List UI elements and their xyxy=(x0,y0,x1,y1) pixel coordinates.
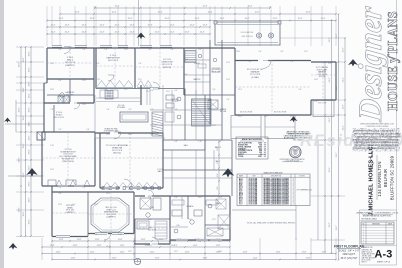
svg-text:JOB NO: 4268: JOB NO: 4268 xyxy=(362,255,372,257)
svg-text:12'-4": 12'-4" xyxy=(226,79,230,81)
svg-text:TUB: TUB xyxy=(150,207,154,209)
svg-text:12'-4": 12'-4" xyxy=(115,6,120,8)
svg-text:J MICHAEL HOMES LLC - CUSTOM R: J MICHAEL HOMES LLC - CUSTOM RESIDENCE -… xyxy=(356,211,398,214)
svg-text:11'-8": 11'-8" xyxy=(71,257,76,259)
svg-text:3'-0": 3'-0" xyxy=(148,49,152,51)
svg-text:15'-8": 15'-8" xyxy=(218,251,222,253)
svg-text:9'-6": 9'-6" xyxy=(104,89,108,91)
svg-text:12'-4": 12'-4" xyxy=(170,32,175,34)
svg-text:15'-8": 15'-8" xyxy=(106,134,110,136)
svg-text:SHEET 3 OF 10: SHEET 3 OF 10 xyxy=(377,261,390,263)
svg-text:WWW.DESIGNERHOUSEPLANS.COM: WWW.DESIGNERHOUSEPLANS.COM xyxy=(360,122,394,125)
svg-text:2'-6": 2'-6" xyxy=(58,187,62,189)
svg-text:11'-8": 11'-8" xyxy=(90,251,95,253)
svg-text:LIN: LIN xyxy=(177,225,180,227)
svg-text:11'-8": 11'-8" xyxy=(185,251,190,253)
svg-text:11'-8": 11'-8" xyxy=(141,239,146,241)
svg-text:5'-4": 5'-4" xyxy=(150,109,154,111)
svg-text:5'-4": 5'-4" xyxy=(58,49,62,51)
svg-text:UP 16R: UP 16R xyxy=(220,111,227,113)
svg-text:(WOOD): (WOOD) xyxy=(163,67,171,69)
svg-text:10'-6": 10'-6" xyxy=(29,67,31,72)
svg-text:12'-4": 12'-4" xyxy=(255,12,260,14)
svg-text:12'-4": 12'-4" xyxy=(82,104,86,106)
svg-text:SF: SF xyxy=(264,156,266,158)
svg-text:3'0 X 5'6 SH: 3'0 X 5'6 SH xyxy=(249,203,259,205)
svg-text:15'-8": 15'-8" xyxy=(148,245,152,247)
svg-text:9'-6": 9'-6" xyxy=(106,109,110,111)
svg-text:9'0 X 7'0 OH: 9'0 X 7'0 OH xyxy=(318,103,326,105)
svg-text:11'-8": 11'-8" xyxy=(112,257,117,259)
svg-text:11'-8": 11'-8" xyxy=(193,245,198,247)
svg-text:10'-6": 10'-6" xyxy=(29,107,31,112)
svg-text:5'-4": 5'-4" xyxy=(82,187,86,189)
svg-text:SH VINYL LOW-E INSUL GLS WHT: SH VINYL LOW-E INSUL GLS WHT xyxy=(264,203,289,205)
svg-text:7'-10": 7'-10" xyxy=(50,145,54,147)
svg-text:13'-2": 13'-2" xyxy=(343,77,345,82)
svg-text:11'-8": 11'-8" xyxy=(306,257,311,259)
svg-text:10'-6": 10'-6" xyxy=(29,165,31,170)
svg-text:HALL: HALL xyxy=(158,170,163,173)
svg-text:AREA CALCULATIONS: AREA CALCULATIONS xyxy=(242,138,263,141)
svg-text:10'-6": 10'-6" xyxy=(23,143,25,148)
svg-text:12'-4": 12'-4" xyxy=(106,246,110,248)
svg-text:12'-4": 12'-4" xyxy=(218,197,222,199)
svg-text:3'-0": 3'-0" xyxy=(198,49,202,51)
svg-text:10'-6": 10'-6" xyxy=(29,181,31,186)
svg-text:3'-0": 3'-0" xyxy=(174,90,178,92)
svg-text:8'-6": 8'-6" xyxy=(217,173,219,177)
svg-text:12'-4": 12'-4" xyxy=(170,25,175,27)
svg-text:2'-6": 2'-6" xyxy=(174,245,178,247)
svg-text:2'-6": 2'-6" xyxy=(290,61,294,63)
svg-text:11'-8": 11'-8" xyxy=(97,245,102,247)
svg-text:13'-2": 13'-2" xyxy=(343,104,345,109)
svg-text:REV: B: REV: B xyxy=(362,262,367,264)
svg-text:10'-6": 10'-6" xyxy=(29,197,31,202)
svg-text:42 IN RAISED BAR: 42 IN RAISED BAR xyxy=(104,130,120,133)
svg-text:12'-4": 12'-4" xyxy=(245,18,250,20)
svg-text:15'-8": 15'-8" xyxy=(124,49,128,51)
svg-text:11'-8": 11'-8" xyxy=(95,239,100,241)
svg-text:(2-CAR): (2-CAR) xyxy=(251,76,259,79)
svg-text:NOTES: NOTES xyxy=(299,175,304,177)
svg-text:12'-4": 12'-4" xyxy=(106,193,110,195)
svg-text:CAR PORCH: CAR PORCH xyxy=(241,35,253,38)
svg-text:10'-6": 10'-6" xyxy=(29,51,31,56)
svg-text:Designer: Designer xyxy=(353,4,389,124)
svg-text:11'-8": 11'-8" xyxy=(302,251,307,253)
svg-text:5'-4": 5'-4" xyxy=(82,49,86,51)
svg-text:10'-6": 10'-6" xyxy=(29,93,31,98)
svg-text:3'-0": 3'-0" xyxy=(174,109,178,111)
svg-text:3'-0": 3'-0" xyxy=(58,80,62,82)
svg-text:5'-4": 5'-4" xyxy=(174,141,178,143)
svg-text:PANTRY: PANTRY xyxy=(193,78,201,81)
svg-text:10'-6": 10'-6" xyxy=(23,57,25,62)
svg-text:8'-6": 8'-6" xyxy=(217,160,219,164)
svg-text:12'-4": 12'-4" xyxy=(218,241,222,243)
svg-text:5'-4": 5'-4" xyxy=(248,61,252,63)
svg-text:11'-2": 11'-2" xyxy=(212,219,216,221)
svg-text:9'-6": 9'-6" xyxy=(198,241,202,243)
svg-text:12'-4": 12'-4" xyxy=(238,89,242,91)
svg-text:11'-2": 11'-2" xyxy=(148,219,152,221)
svg-text:9'-6": 9'-6" xyxy=(58,193,62,195)
svg-text:3'-0": 3'-0" xyxy=(226,99,230,101)
svg-text:PLANS WITHOUT PLANS TO CONSTRU: PLANS WITHOUT PLANS TO CONSTRUCTION THIS… xyxy=(355,135,401,138)
svg-text:12'-4": 12'-4" xyxy=(51,32,56,34)
svg-text:WINDOW SCHEDULE: WINDOW SCHEDULE xyxy=(263,172,283,174)
svg-text:15'-8": 15'-8" xyxy=(50,89,54,91)
svg-text:8'0 X 14'2: 8'0 X 14'2 xyxy=(212,71,220,73)
svg-text:10'-6": 10'-6" xyxy=(23,211,25,216)
svg-text:11'-2": 11'-2" xyxy=(138,79,142,81)
svg-text:14'6 X 12'0: 14'6 X 12'0 xyxy=(108,60,119,62)
svg-text:11'-8": 11'-8" xyxy=(216,245,221,247)
svg-text:C-1042 EXP 06/30/24: C-1042 EXP 06/30/24 xyxy=(285,161,300,163)
svg-text:13'-2": 13'-2" xyxy=(329,167,331,172)
svg-text:12'-4": 12'-4" xyxy=(128,18,133,20)
svg-text:9'-6": 9'-6" xyxy=(184,74,188,76)
svg-text:12'-4": 12'-4" xyxy=(59,18,64,20)
svg-text:REPRODUCTION AND PURCHASER DRA: REPRODUCTION AND PURCHASER DRAWING STRIC… xyxy=(353,138,398,141)
svg-text:5'-4": 5'-4" xyxy=(104,49,108,51)
svg-text:12'-4": 12'-4" xyxy=(50,169,54,171)
svg-text:12'-4": 12'-4" xyxy=(165,18,170,20)
svg-text:(CARPET): (CARPET) xyxy=(66,211,75,214)
svg-text:8'0 X 6'6: 8'0 X 6'6 xyxy=(66,94,73,96)
svg-text:11'-8": 11'-8" xyxy=(120,251,125,253)
svg-text:7'-10": 7'-10" xyxy=(118,234,122,236)
svg-text:7'-10": 7'-10" xyxy=(96,79,100,81)
svg-text:11'-2": 11'-2" xyxy=(128,251,132,253)
svg-text:12'-4": 12'-4" xyxy=(82,80,86,82)
svg-text:10'-6": 10'-6" xyxy=(29,135,31,140)
svg-text:ROOF ABOVE: ROOF ABOVE xyxy=(241,31,254,34)
svg-text:12'-4": 12'-4" xyxy=(203,6,208,8)
svg-text:11'-2": 11'-2" xyxy=(198,197,202,199)
svg-text:10'-6": 10'-6" xyxy=(29,81,31,86)
svg-text:12'-4": 12'-4" xyxy=(321,18,326,20)
svg-text:16'0 X 8'0 OH DR: 16'0 X 8'0 OH DR xyxy=(274,112,287,114)
svg-text:11'-8": 11'-8" xyxy=(59,239,64,241)
svg-text:12'-4": 12'-4" xyxy=(100,25,105,27)
svg-text:11'-8": 11'-8" xyxy=(120,245,125,247)
svg-text:5'-4": 5'-4" xyxy=(150,90,154,92)
svg-text:11'-2": 11'-2" xyxy=(166,91,170,93)
svg-text:CHECKED: TM: CHECKED: TM xyxy=(362,249,373,251)
svg-text:S.C.: S.C. xyxy=(294,153,297,155)
svg-text:SIZE: SIZE xyxy=(252,175,255,177)
svg-text:12'-4": 12'-4" xyxy=(238,116,242,118)
svg-text:5'-4": 5'-4" xyxy=(148,197,152,199)
svg-text:12'-4": 12'-4" xyxy=(100,32,105,34)
svg-text:No: No xyxy=(363,223,365,225)
svg-text:15'-8": 15'-8" xyxy=(128,189,132,191)
svg-text:FIRST FLOORPLAN: FIRST FLOORPLAN xyxy=(334,244,365,248)
svg-text:CONSTRUCTION LICENSE: CONSTRUCTION LICENSE xyxy=(366,126,389,128)
svg-text:ONLY COPYRIGHT AND HOUSE SITE: ONLY COPYRIGHT AND HOUSE SITE PART PERMI… xyxy=(355,144,399,147)
svg-text:BLUFFTON SC 29909: BLUFFTON SC 29909 xyxy=(390,155,395,200)
svg-text:12'-4": 12'-4" xyxy=(112,12,117,14)
svg-text:MARK: MARK xyxy=(239,174,243,177)
svg-text:5'-4": 5'-4" xyxy=(170,49,174,51)
svg-text:SCALE : 1/4" = 1'-0": SCALE : 1/4" = 1'-0" xyxy=(339,249,360,252)
svg-text:13'-2": 13'-2" xyxy=(336,225,338,230)
svg-text:11'0 X 12'0: 11'0 X 12'0 xyxy=(54,117,65,119)
svg-text:PLOT: 24X36: PLOT: 24X36 xyxy=(362,260,371,262)
svg-text:13'-2": 13'-2" xyxy=(343,47,345,52)
svg-text:3282 SQ.FT.: 3282 SQ.FT. xyxy=(343,254,356,256)
svg-text:10'-6": 10'-6" xyxy=(19,62,21,67)
svg-text:12'-4": 12'-4" xyxy=(248,6,253,8)
svg-text:12'-4": 12'-4" xyxy=(273,18,278,20)
svg-text:9'-6": 9'-6" xyxy=(150,134,154,136)
svg-text:(WOOD): (WOOD) xyxy=(113,153,121,155)
svg-text:15'-8": 15'-8" xyxy=(94,204,98,206)
svg-text:9'-6": 9'-6" xyxy=(298,89,302,91)
svg-text:CONSTRUCTION ALL DOCUMENT DIME: CONSTRUCTION ALL DOCUMENT DIMENSIONS HOU… xyxy=(354,141,398,144)
svg-text:13'-2": 13'-2" xyxy=(336,152,338,157)
svg-text:J.MICHAEL HOMES LLC.: J.MICHAEL HOMES LLC. xyxy=(369,144,375,215)
svg-text:12'-4": 12'-4" xyxy=(184,59,188,61)
svg-text:12'-4": 12'-4" xyxy=(298,18,303,20)
svg-text:12'-4": 12'-4" xyxy=(50,63,54,65)
svg-text:3 PT TEMPERED GLS: 3 PT TEMPERED GLS xyxy=(297,190,312,192)
svg-text:2'-6": 2'-6" xyxy=(50,109,54,111)
svg-text:7: 7 xyxy=(137,263,138,265)
svg-text:11'-2": 11'-2" xyxy=(174,251,178,253)
svg-text:2'-6": 2'-6" xyxy=(174,197,178,199)
svg-text:12'-4": 12'-4" xyxy=(200,32,205,34)
svg-text:11'-2": 11'-2" xyxy=(146,91,150,93)
svg-text:11'-2": 11'-2" xyxy=(264,116,268,118)
svg-text:13'-2": 13'-2" xyxy=(336,33,338,38)
svg-text:15'-8": 15'-8" xyxy=(212,125,216,127)
svg-text:9'-6": 9'-6" xyxy=(86,129,90,131)
svg-text:11'-8": 11'-8" xyxy=(150,251,155,253)
svg-text:9'-6": 9'-6" xyxy=(258,51,262,53)
svg-text:12'-4": 12'-4" xyxy=(65,25,70,27)
svg-text:A-3: A-3 xyxy=(375,248,393,260)
svg-text:BELFAIR PLANTATION , BLUFFTON: BELFAIR PLANTATION , BLUFFTON SC xyxy=(363,215,392,218)
svg-text:11'-8": 11'-8" xyxy=(322,251,327,253)
svg-text:13'-2": 13'-2" xyxy=(329,222,331,227)
svg-text:12'-4": 12'-4" xyxy=(75,12,80,14)
svg-text:5591: 5591 xyxy=(258,156,262,158)
svg-text:11'-8": 11'-8" xyxy=(73,245,78,247)
svg-text:RE: PLAN NO 4268-B: RE: PLAN NO 4268-B xyxy=(362,218,377,221)
svg-text:(CARPET): (CARPET) xyxy=(65,64,75,67)
svg-text:13'-2": 13'-2" xyxy=(329,77,331,82)
svg-text:3'-0": 3'-0" xyxy=(188,219,192,221)
svg-text:PNTRY: PNTRY xyxy=(172,101,179,103)
svg-text:KITCHEN: KITCHEN xyxy=(117,107,126,109)
svg-text:NOTE - ALL WINDOWS TO MEET E: NOTE - ALL WINDOWS TO MEET EGRESS REQ. P… xyxy=(247,221,296,224)
svg-text:(CARPET): (CARPET) xyxy=(107,215,116,218)
svg-text:TOTAL: TOTAL xyxy=(238,155,245,158)
svg-text:DATE: DATE xyxy=(388,222,392,225)
svg-text:2'-6": 2'-6" xyxy=(96,63,100,65)
svg-text:12'-4": 12'-4" xyxy=(115,32,120,34)
svg-text:2'-6": 2'-6" xyxy=(94,234,98,236)
svg-text:9'-6": 9'-6" xyxy=(58,129,62,131)
svg-text:DESCRIPTION: DESCRIPTION xyxy=(271,175,281,177)
svg-text:7'-10": 7'-10" xyxy=(198,141,202,143)
svg-text:16'0 X 8'0 OH DR: 16'0 X 8'0 OH DR xyxy=(240,112,253,114)
svg-text:15'-8": 15'-8" xyxy=(106,189,110,191)
svg-text:11'-8": 11'-8" xyxy=(159,239,164,241)
svg-text:REVISION: REVISION xyxy=(372,223,379,225)
svg-text:WRITTEN HOUSE ONLY ON RIGHTS: WRITTEN HOUSE ONLY ON RIGHTS xyxy=(353,131,394,133)
svg-text:(STOR): (STOR) xyxy=(319,76,326,78)
svg-text:12'-4": 12'-4" xyxy=(306,12,311,14)
svg-text:11'-8": 11'-8" xyxy=(77,239,82,241)
svg-text:10'-6": 10'-6" xyxy=(23,172,25,177)
svg-text:(TREX DECK): (TREX DECK) xyxy=(62,161,74,163)
svg-text:12'-4": 12'-4" xyxy=(226,62,230,64)
svg-text:12'-4": 12'-4" xyxy=(185,32,190,34)
svg-text:15'-8": 15'-8" xyxy=(128,134,132,136)
svg-text:10'-6": 10'-6" xyxy=(29,149,31,154)
svg-text:11'-8": 11'-8" xyxy=(155,257,160,259)
svg-text:12'-4": 12'-4" xyxy=(203,25,208,27)
svg-text:CERTIFICATE OF AUTHORIZATION: CERTIFICATE OF AUTHORIZATION xyxy=(280,158,305,161)
svg-text:11'-8": 11'-8" xyxy=(243,251,248,253)
svg-text:2: 2 xyxy=(293,203,294,205)
svg-text:45'-0" (LIV) HGT: 45'-0" (LIV) HGT xyxy=(341,258,359,260)
svg-text:PWDR: PWDR xyxy=(194,63,200,65)
svg-text:11'-2": 11'-2" xyxy=(124,89,128,91)
svg-text:11'-2": 11'-2" xyxy=(328,63,332,65)
svg-text:8'-6": 8'-6" xyxy=(217,186,219,190)
svg-text:12'-4": 12'-4" xyxy=(190,25,195,27)
svg-text:11'-8": 11'-8" xyxy=(118,239,123,241)
svg-text:5'-4": 5'-4" xyxy=(280,51,284,53)
svg-text:GARAGE: GARAGE xyxy=(251,71,261,74)
svg-text:10'-6": 10'-6" xyxy=(19,107,21,112)
svg-text:15'-8": 15'-8" xyxy=(314,79,318,81)
svg-text:12'-4": 12'-4" xyxy=(155,32,160,34)
svg-text:10'-6": 10'-6" xyxy=(29,219,31,224)
svg-text:BELFAIR: BELFAIR xyxy=(383,169,388,187)
svg-text:12'-4": 12'-4" xyxy=(195,18,200,20)
svg-text:13'-2": 13'-2" xyxy=(343,125,345,130)
svg-text:11'-8": 11'-8" xyxy=(276,251,281,253)
svg-text:11'-8": 11'-8" xyxy=(253,257,258,259)
svg-text:15'-8": 15'-8" xyxy=(236,51,240,53)
svg-text:5'-4": 5'-4" xyxy=(128,109,132,111)
svg-text:15'-8": 15'-8" xyxy=(58,204,62,206)
svg-text:12'-4": 12'-4" xyxy=(115,25,120,27)
svg-text:11'-2": 11'-2" xyxy=(304,51,308,53)
svg-text:THIS ON PERMISSION WITHOUT ANY: THIS ON PERMISSION WITHOUT ANY ON ON DOC… xyxy=(354,133,402,136)
svg-text:9'-6": 9'-6" xyxy=(212,89,216,91)
svg-text:9'-6": 9'-6" xyxy=(138,63,142,65)
svg-text:HALL: HALL xyxy=(184,144,189,147)
svg-text:HOUSE ƴ PLANS: HOUSE ƴ PLANS xyxy=(385,11,400,111)
svg-text:8'-6": 8'-6" xyxy=(217,147,219,151)
svg-text:13'-2": 13'-2" xyxy=(329,117,331,122)
svg-text:9'-6": 9'-6" xyxy=(58,96,62,98)
svg-text:M.BATH: M.BATH xyxy=(187,205,194,208)
svg-text:12'-4": 12'-4" xyxy=(65,32,70,34)
svg-text:V1 V: V1 V xyxy=(239,203,243,205)
svg-text:134 BARRELTON: 134 BARRELTON xyxy=(377,161,382,196)
svg-text:12'-4": 12'-4" xyxy=(51,25,56,27)
svg-text:11'-8": 11'-8" xyxy=(56,251,61,253)
